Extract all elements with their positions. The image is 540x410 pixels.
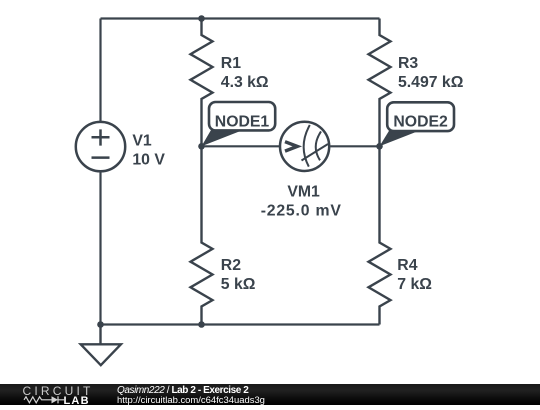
svg-text:-225.0 mV: -225.0 mV: [261, 202, 342, 219]
svg-text:5 kΩ: 5 kΩ: [221, 276, 256, 293]
junction dot top rail / R1: [198, 15, 205, 22]
ground: [81, 325, 121, 366]
svg-text:VM1: VM1: [287, 184, 320, 201]
resistor R2: [191, 146, 213, 324]
svg-text:R1: R1: [221, 55, 241, 72]
svg-text:NODE1: NODE1: [215, 114, 270, 131]
label VM1 value: [261, 184, 342, 220]
footer title text: [117, 386, 248, 396]
footer url text: [117, 396, 265, 405]
voltage source V1: [76, 122, 125, 171]
svg-text:7 kΩ: 7 kΩ: [397, 276, 432, 293]
label R4 value: [397, 257, 432, 293]
wire node1 to voltmeter left: [202, 145, 280, 147]
svg-text:5.497 kΩ: 5.497 kΩ: [398, 74, 464, 91]
voltmeter VM1: [280, 122, 329, 171]
svg-text:NODE2: NODE2: [393, 114, 448, 131]
resistor R3: [369, 19, 391, 147]
label R1 value: [221, 55, 269, 91]
svg-text:10 V: 10 V: [132, 151, 165, 168]
label R2 value: [221, 257, 256, 293]
resistor R1: [191, 19, 213, 147]
svg-text:V1: V1: [132, 132, 152, 149]
wire bottom rail: [101, 323, 380, 325]
node NODE2 callout: [380, 102, 455, 146]
svg-text:R4: R4: [397, 257, 417, 274]
label V1 value: [132, 132, 165, 168]
junction dot bottom rail / R2: [198, 321, 205, 328]
svg-text:R3: R3: [398, 55, 418, 72]
junction dot node2: [376, 143, 383, 150]
svg-text:4.3 kΩ: 4.3 kΩ: [221, 74, 269, 91]
wire voltmeter right to node2: [330, 145, 379, 147]
junction dot node1: [198, 143, 205, 150]
wire left vertical top (V1 to top rail): [99, 19, 101, 122]
logo CircuitLab: [23, 385, 94, 397]
footer bar: [0, 384, 540, 405]
label R3 value: [398, 55, 464, 91]
junction dot bottom rail / ground: [97, 321, 104, 328]
svg-text:R2: R2: [221, 257, 241, 274]
wire top rail: [101, 17, 380, 19]
node NODE1 callout: [202, 102, 276, 146]
resistor R4: [369, 146, 391, 324]
wire left vertical bottom (V1 to bottom rail): [99, 172, 101, 325]
logo squiggle (resistor + diode): [22, 394, 68, 406]
